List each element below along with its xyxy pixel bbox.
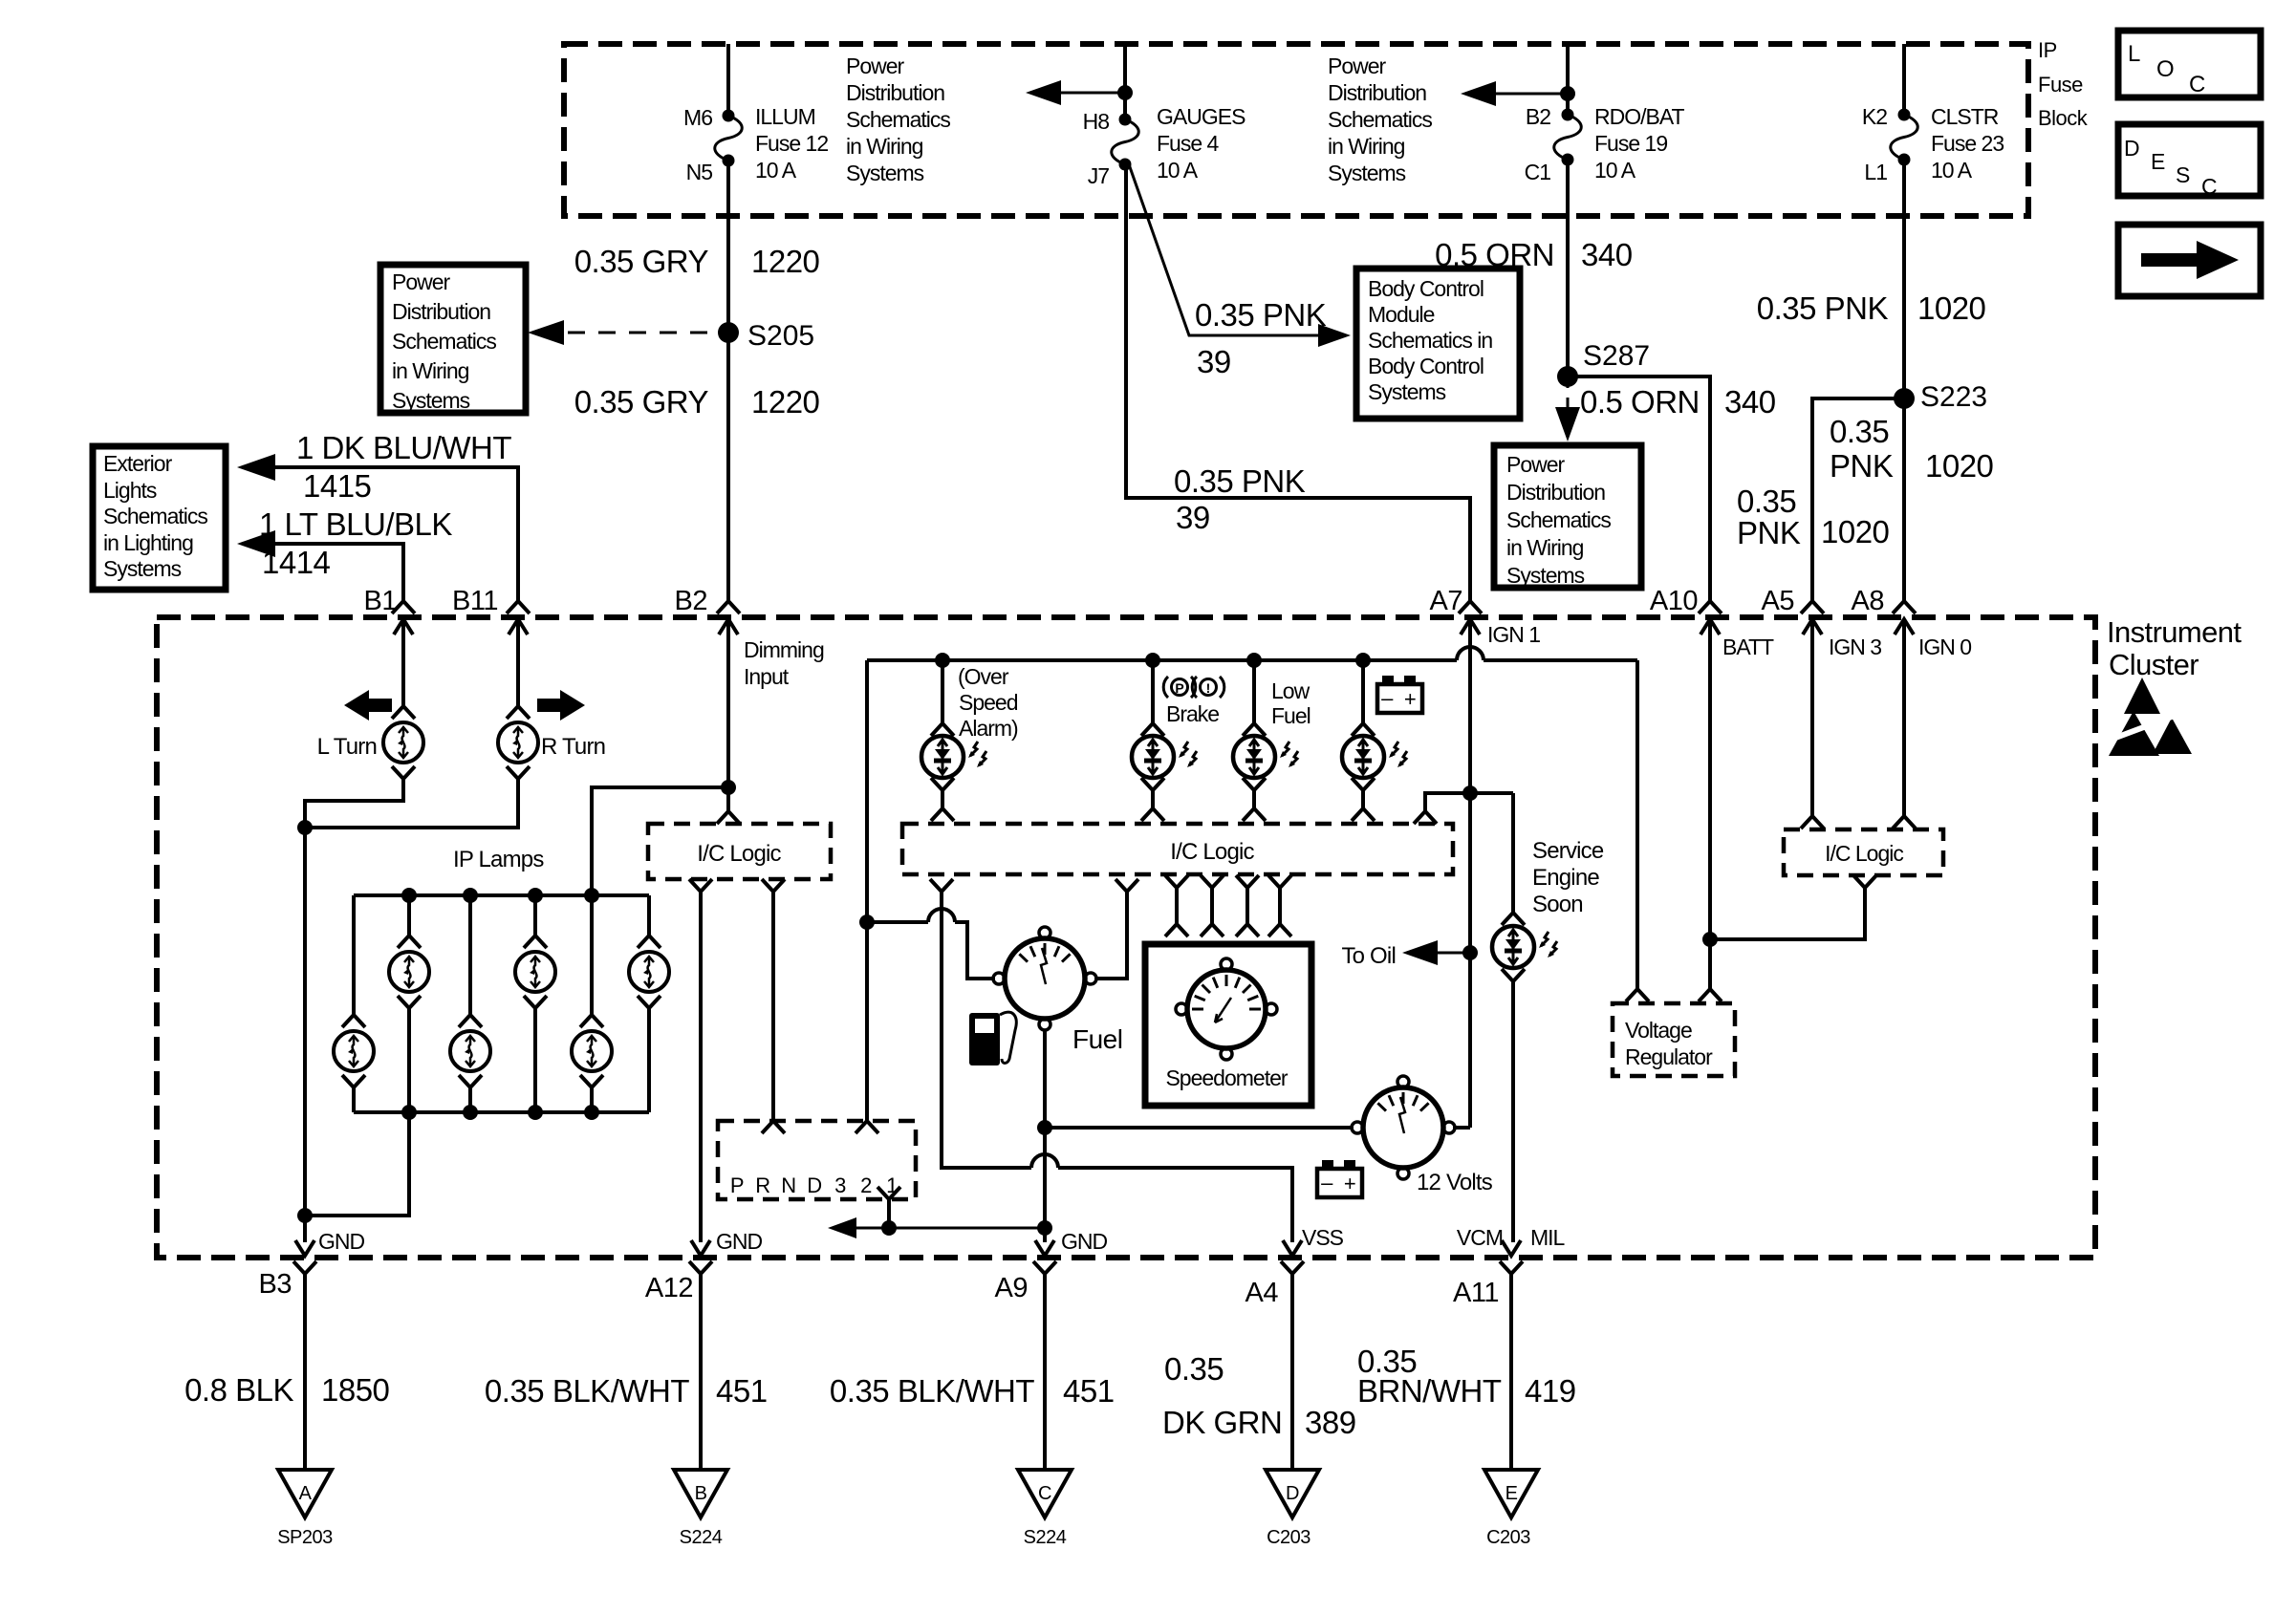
svg-text:in Wiring: in Wiring xyxy=(1506,535,1584,560)
svg-text:0.35 GRY: 0.35 GRY xyxy=(574,384,709,420)
svg-text:VCM: VCM xyxy=(1457,1225,1503,1250)
pin: right I/C bottom xyxy=(1853,875,1876,888)
gauge: Fuel xyxy=(1005,938,1085,1019)
svg-text:K2: K2 xyxy=(1862,104,1887,129)
lamp L Turn xyxy=(392,706,415,719)
node: LED bus junction x=986 xyxy=(935,653,950,668)
svg-text:10 A: 10 A xyxy=(1931,158,1973,183)
node: IP lamp bottom bus junction x=492 xyxy=(463,1105,478,1120)
svg-text:419: 419 xyxy=(1525,1373,1576,1409)
svg-text:0.35: 0.35 xyxy=(1830,414,1889,449)
connector A12 xyxy=(691,1240,710,1256)
svg-text:340: 340 xyxy=(1724,384,1776,420)
box: Power Distribution Schematics in Wiring Systems (upper left) xyxy=(380,265,526,413)
wire: LED column 1 xyxy=(941,660,944,723)
svg-text:S223: S223 xyxy=(1920,381,1987,413)
wire: PRND to select line xyxy=(887,1199,891,1228)
svg-text:GND: GND xyxy=(716,1229,763,1254)
svg-text:Schematics in: Schematics in xyxy=(1368,328,1492,353)
svg-text:IGN 3: IGN 3 xyxy=(1829,635,1881,659)
pin: center I/C bottom left xyxy=(930,879,953,892)
svg-text:0.35 PNK: 0.35 PNK xyxy=(1174,463,1306,499)
svg-text:Fuse 19: Fuse 19 xyxy=(1594,131,1667,156)
lamp IP2 xyxy=(398,936,421,948)
svg-text:Distribution: Distribution xyxy=(1506,480,1605,505)
lamp IP3 xyxy=(459,1015,482,1027)
connector B3 xyxy=(295,1240,314,1256)
connector stub I/C to speedometer x=1305 xyxy=(1236,875,1259,888)
svg-text:A10: A10 xyxy=(1650,586,1698,616)
svg-text:1414: 1414 xyxy=(262,545,331,580)
LED indicator 3 xyxy=(1243,723,1266,736)
svg-text:Service: Service xyxy=(1532,838,1604,864)
LED indicator 2 xyxy=(1141,723,1164,736)
svg-text:Systems: Systems xyxy=(1328,161,1406,185)
node: IP lamp bottom bus junction x=619 xyxy=(584,1105,599,1120)
pin: I/C Logic to PRND xyxy=(762,879,785,892)
svg-text:DK GRN: DK GRN xyxy=(1162,1405,1282,1440)
svg-text:D: D xyxy=(807,1173,821,1197)
box: Power Distribution Schematics in Wiring Systems (lower) xyxy=(1494,445,1641,588)
LED Service Engine Soon xyxy=(1502,913,1525,925)
LED indicator 4 xyxy=(1352,723,1375,736)
wire: I/C to VSS (A4) xyxy=(942,892,1031,1168)
svg-text:Cluster: Cluster xyxy=(2109,648,2199,681)
svg-text:1020: 1020 xyxy=(1925,448,1994,484)
wire: 12V gauge left terminal to A9 wire xyxy=(1045,1126,1354,1130)
svg-text:1 LT BLU/BLK: 1 LT BLU/BLK xyxy=(259,506,452,542)
svg-text:Systems: Systems xyxy=(846,161,924,185)
node S205 xyxy=(718,322,739,343)
node: dimming branch xyxy=(721,780,736,795)
svg-text:1020: 1020 xyxy=(1917,291,1986,326)
wire: IP lamp column 2 xyxy=(407,895,411,936)
svg-text:Power: Power xyxy=(1328,54,1387,78)
svg-text:1415: 1415 xyxy=(303,468,371,504)
connector B1 xyxy=(392,601,415,613)
svg-text:Power: Power xyxy=(1506,452,1566,477)
svg-text:Fuse 4: Fuse 4 xyxy=(1157,131,1220,156)
svg-text:0.5 ORN: 0.5 ORN xyxy=(1580,384,1700,420)
wire: B3 to SP203 xyxy=(303,1274,307,1469)
node: LED bus junction x=1426 xyxy=(1355,653,1371,668)
connector A5 xyxy=(1801,601,1824,613)
Instrument Cluster dashed enclosure xyxy=(157,617,2095,1258)
svg-text:M6: M6 xyxy=(683,105,712,130)
svg-text:GAUGES: GAUGES xyxy=(1157,104,1245,129)
svg-text:10 A: 10 A xyxy=(1594,158,1636,183)
wire: top bus to voltage regulator xyxy=(1635,660,1639,989)
svg-text:S: S xyxy=(2176,162,2190,187)
wire: to Service Engine Soon LED xyxy=(1511,793,1515,913)
svg-text:IGN 1: IGN 1 xyxy=(1487,622,1540,647)
svg-text:ILLUM: ILLUM xyxy=(755,104,815,129)
wire: R Turn output 1 DK BLU/WHT 1415 xyxy=(250,467,518,603)
wire: IP lamps bottom bus xyxy=(354,1110,649,1114)
svg-text:S205: S205 xyxy=(747,320,814,352)
svg-text:389: 389 xyxy=(1305,1405,1356,1440)
svg-text:A7: A7 xyxy=(1430,586,1462,616)
svg-text:10 A: 10 A xyxy=(755,158,797,183)
wire: right I/C to BATT wire xyxy=(1709,888,1865,939)
connector A (SP203) xyxy=(278,1470,332,1517)
svg-text:39: 39 xyxy=(1197,344,1231,379)
svg-text:BATT: BATT xyxy=(1722,635,1774,659)
svg-text:3: 3 xyxy=(834,1173,846,1197)
pin: PRND bottom xyxy=(877,1187,900,1199)
svg-text:Speedometer: Speedometer xyxy=(1165,1065,1288,1090)
svg-text:1220: 1220 xyxy=(751,244,820,279)
lamp IP1 xyxy=(342,1015,365,1027)
svg-text:0.35 GRY: 0.35 GRY xyxy=(574,244,709,279)
wire: I/C Logic to PRND display xyxy=(771,892,775,1120)
svg-text:N: N xyxy=(781,1173,795,1197)
LED indicator 1 xyxy=(931,723,954,736)
svg-text:451: 451 xyxy=(1063,1373,1115,1409)
svg-text:S287: S287 xyxy=(1583,340,1650,372)
node: IP lamp bus junction x=428 xyxy=(401,888,417,903)
svg-text:L: L xyxy=(2128,41,2140,67)
svg-text:in Lighting: in Lighting xyxy=(103,530,193,555)
svg-text:Schematics: Schematics xyxy=(1506,507,1611,532)
arrow to Power Distribution (left) xyxy=(1032,92,1125,95)
fuse F23 CLSTR xyxy=(1898,109,1911,121)
svg-text:Module: Module xyxy=(1368,302,1435,327)
wire: IP lamp column 4 xyxy=(533,895,537,936)
svg-text:Fuel: Fuel xyxy=(1271,703,1310,728)
connector stub I/C to speedometer x=1339 xyxy=(1268,875,1291,888)
wire: dimming branch to IP lamps xyxy=(592,787,728,895)
svg-text:Lights: Lights xyxy=(103,478,157,503)
svg-text:C203: C203 xyxy=(1267,1527,1310,1548)
svg-text:2: 2 xyxy=(860,1173,872,1197)
I/C Logic box (left) xyxy=(717,811,740,824)
svg-text:0.8 BLK: 0.8 BLK xyxy=(184,1372,293,1408)
svg-text:P: P xyxy=(730,1173,744,1197)
svg-text:VSS: VSS xyxy=(1302,1225,1344,1250)
svg-text:IP Lamps: IP Lamps xyxy=(453,847,544,872)
lamp R Turn xyxy=(507,706,530,719)
svg-text:Systems: Systems xyxy=(1506,563,1585,588)
svg-text:I/C Logic: I/C Logic xyxy=(697,841,781,867)
svg-text:Distribution: Distribution xyxy=(846,80,944,105)
ESD sensitive device symbol xyxy=(2124,678,2160,714)
svg-text:S224: S224 xyxy=(1024,1527,1067,1548)
svg-text:D: D xyxy=(1286,1483,1299,1504)
svg-text:Voltage: Voltage xyxy=(1625,1018,1692,1043)
pin: center I/C top right from IGN1 xyxy=(1414,811,1437,824)
wire: IP lamp column 1 xyxy=(352,895,356,1015)
fuse F4 GAUGES xyxy=(1119,114,1132,126)
wire: I/C Logic to A12 GND xyxy=(699,892,703,1242)
svg-text:in Wiring: in Wiring xyxy=(846,134,923,159)
svg-text:A11: A11 xyxy=(1453,1278,1499,1308)
pin: center I/C bottom (fuel gauge right) xyxy=(1116,879,1138,892)
svg-text:10 A: 10 A xyxy=(1157,158,1199,183)
svg-text:H8: H8 xyxy=(1083,109,1110,134)
wire: IP lamps top bus xyxy=(354,893,649,897)
svg-text:in Wiring: in Wiring xyxy=(392,358,469,383)
node: To Oil junction xyxy=(1462,945,1478,960)
svg-text:B2: B2 xyxy=(1526,104,1550,129)
node: IP lamp bottom bus junction x=560 xyxy=(528,1105,543,1120)
svg-text:B3: B3 xyxy=(259,1269,292,1300)
svg-text:J7: J7 xyxy=(1088,163,1110,188)
svg-text:0.35 BLK/WHT: 0.35 BLK/WHT xyxy=(485,1373,689,1409)
connector A8 xyxy=(1893,601,1916,613)
wire: LED column 4 xyxy=(1361,660,1365,723)
wire to R Turn lamp xyxy=(516,635,520,706)
svg-text:SP203: SP203 xyxy=(277,1527,333,1548)
svg-text:E: E xyxy=(1505,1483,1518,1504)
pin: I/C Logic left bottom (GND) xyxy=(689,879,712,892)
svg-text:B: B xyxy=(695,1483,707,1504)
wire: RDO/BAT fuse feed xyxy=(1566,44,1570,115)
node: turn lamp ground junction xyxy=(297,820,313,835)
svg-text:Input: Input xyxy=(744,664,790,689)
svg-text:O: O xyxy=(2156,56,2174,82)
wire: S287 branch to A10 xyxy=(1568,377,1710,603)
node: BATT/I-C junction xyxy=(1702,932,1718,947)
svg-text:Schematics: Schematics xyxy=(392,329,496,354)
svg-text:B11: B11 xyxy=(452,586,498,616)
svg-text:12 Volts: 12 Volts xyxy=(1417,1170,1493,1195)
wire: L Turn output 1 LT BLU/BLK 1414 xyxy=(250,544,403,603)
svg-text:C203: C203 xyxy=(1486,1527,1530,1548)
wire: IGN 1 from A7 xyxy=(1468,635,1472,1128)
dashed arrow from S205 to box xyxy=(537,332,719,334)
svg-text:Systems: Systems xyxy=(103,556,182,581)
wire: A4 to C203 xyxy=(1290,1274,1294,1469)
svg-text:39: 39 xyxy=(1176,500,1210,535)
wire: CLSTR fuse feed xyxy=(1902,44,1906,115)
wire: RDO/BAT output 0.5 ORN 340 xyxy=(1566,160,1570,377)
wire: SES LED to MIL A11 xyxy=(1511,981,1515,1242)
connector B (S224) xyxy=(674,1470,727,1517)
gauge: 12 Volts xyxy=(1363,1087,1443,1168)
IP Fuse Block dashed enclosure xyxy=(564,44,2028,216)
node S287 xyxy=(1557,366,1578,387)
wire: A11 to C203 xyxy=(1509,1274,1513,1469)
svg-text:Low: Low xyxy=(1271,678,1310,703)
wire: IP lamps return to ground xyxy=(305,1112,409,1216)
svg-text:1 DK BLU/WHT: 1 DK BLU/WHT xyxy=(296,430,511,465)
svg-text:IGN 0: IGN 0 xyxy=(1918,635,1971,659)
svg-text:RDO/BAT: RDO/BAT xyxy=(1594,104,1684,129)
node: LED bus junction x=1312 xyxy=(1246,653,1262,668)
Speedometer box xyxy=(1145,944,1311,1106)
svg-text:IP: IP xyxy=(2038,38,2057,62)
svg-text:E: E xyxy=(2151,149,2165,174)
svg-text:Fuse 23: Fuse 23 xyxy=(1931,131,2004,156)
svg-text:Exterior: Exterior xyxy=(103,451,173,476)
connector A4 xyxy=(1283,1240,1302,1256)
wire: 12V gauge right terminal to IGN1 xyxy=(1453,1126,1470,1130)
svg-text:L1: L1 xyxy=(1864,160,1887,184)
node: ground junction at B3 wire xyxy=(297,1208,313,1223)
svg-text:BRN/WHT: BRN/WHT xyxy=(1357,1373,1502,1409)
wire: ground bus to B3 xyxy=(303,828,307,1242)
svg-text:GND: GND xyxy=(318,1229,365,1254)
LOC box xyxy=(2118,31,2261,97)
connector B11 xyxy=(507,601,530,613)
svg-text:Power: Power xyxy=(846,54,905,78)
svg-text:0.35: 0.35 xyxy=(1737,484,1796,519)
svg-text:Body Control: Body Control xyxy=(1368,276,1484,301)
wire: IP lamp column 3 xyxy=(468,895,472,1015)
svg-text:R Turn: R Turn xyxy=(541,734,605,760)
wire: A12 to S224 xyxy=(699,1274,703,1469)
svg-text:Block: Block xyxy=(2038,106,2089,130)
svg-text:B1: B1 xyxy=(364,586,397,616)
connector A9 xyxy=(1035,1240,1054,1256)
svg-text:A12: A12 xyxy=(645,1273,693,1303)
connector D (C203) xyxy=(1266,1470,1319,1517)
svg-text:C: C xyxy=(1038,1483,1051,1504)
wire: GAUGES fuse feed xyxy=(1123,44,1127,119)
svg-text:A: A xyxy=(299,1483,313,1504)
node: fuel gauge feed junction xyxy=(859,915,875,930)
wire: ILLUM output 0.35 GRY 1220 xyxy=(726,161,730,603)
wire from L Turn lamp xyxy=(305,779,403,828)
wire: GAUGES output down and right to A7 xyxy=(1126,164,1470,603)
svg-text:+: + xyxy=(1404,687,1416,711)
svg-text:C: C xyxy=(2189,72,2205,97)
svg-text:Soon: Soon xyxy=(1532,892,1583,917)
svg-text:I/C Logic: I/C Logic xyxy=(1825,841,1903,866)
svg-text:0.35 PNK: 0.35 PNK xyxy=(1757,291,1889,326)
svg-text:Schematics: Schematics xyxy=(103,504,207,528)
svg-text:C: C xyxy=(2201,174,2217,199)
svg-text:CLSTR: CLSTR xyxy=(1931,104,1999,129)
svg-text:–: – xyxy=(1381,686,1394,710)
node: IP lamp bus junction x=560 xyxy=(528,888,543,903)
node: arrow junction on GAUGES feed xyxy=(1117,85,1133,100)
PRND321 display box xyxy=(762,1121,785,1133)
I/C Logic box (center) xyxy=(902,824,1453,874)
svg-text:Instrument: Instrument xyxy=(2107,615,2242,649)
connector A7 xyxy=(1459,601,1482,613)
svg-text:PNK: PNK xyxy=(1737,515,1801,550)
brake warning icon xyxy=(1172,679,1188,696)
svg-text:P: P xyxy=(1175,680,1183,696)
connector A10 xyxy=(1699,601,1722,613)
connector A11 xyxy=(1502,1240,1521,1256)
wire to L Turn lamp xyxy=(401,635,405,706)
svg-text:GND: GND xyxy=(1061,1229,1108,1254)
svg-text:PNK: PNK xyxy=(1830,448,1894,484)
node: LED bus junction x=1206 xyxy=(1145,653,1160,668)
svg-text:A4: A4 xyxy=(1245,1278,1279,1308)
wire: indicator LED top bus xyxy=(867,658,1457,662)
wire: J7 diagonal to BCM arrow xyxy=(1129,164,1336,335)
wire: I/C to fuel gauge right terminal xyxy=(1094,892,1127,979)
wire: LED column 3 xyxy=(1252,660,1256,723)
svg-text:MIL: MIL xyxy=(1530,1225,1566,1250)
wire: feed to fuel gauge left terminal xyxy=(867,920,928,924)
svg-text:Speed: Speed xyxy=(959,690,1018,715)
node: IP lamp bottom bus junction x=428 xyxy=(401,1105,417,1120)
svg-text:Regulator: Regulator xyxy=(1625,1044,1713,1069)
svg-text:Engine: Engine xyxy=(1532,865,1599,891)
svg-text:Body Control: Body Control xyxy=(1368,354,1484,378)
wire: A9 to S224 xyxy=(1043,1274,1047,1469)
connector C (S224) xyxy=(1018,1470,1072,1517)
wire: fuel gauge bottom to GND A9 xyxy=(1043,1030,1047,1242)
connector B2 xyxy=(717,601,740,613)
lamp IP4 xyxy=(524,936,547,948)
lamp IP5 xyxy=(580,1015,603,1027)
node S223 xyxy=(1894,388,1915,409)
wire: S223 branch to A5 xyxy=(1812,398,1904,603)
svg-text:Schematics: Schematics xyxy=(1328,107,1432,132)
wire from R Turn lamp xyxy=(305,779,518,828)
battery icon (charge indicator) xyxy=(1382,676,1394,685)
svg-text:!: ! xyxy=(1206,680,1211,696)
svg-text:C1: C1 xyxy=(1525,160,1551,184)
svg-text:+: + xyxy=(1344,1172,1355,1195)
wire: gauge ground / select line with left arrow xyxy=(851,1227,1045,1230)
svg-text:A5: A5 xyxy=(1762,586,1794,616)
svg-text:1850: 1850 xyxy=(321,1372,390,1408)
wire: IGN 3 from A5 xyxy=(1810,635,1814,816)
svg-text:Distribution: Distribution xyxy=(392,299,490,324)
svg-text:Dimming: Dimming xyxy=(744,637,824,662)
svg-text:0.35 BLK/WHT: 0.35 BLK/WHT xyxy=(830,1373,1034,1409)
battery icon (12V) xyxy=(1322,1160,1333,1170)
svg-text:Alarm): Alarm) xyxy=(959,716,1018,741)
wire: LED column 2 xyxy=(1151,660,1155,723)
connector E (C203) xyxy=(1484,1470,1538,1517)
svg-text:451: 451 xyxy=(716,1373,768,1409)
svg-text:0.35 PNK: 0.35 PNK xyxy=(1195,297,1327,333)
svg-text:S224: S224 xyxy=(680,1527,723,1548)
node: IP lamp bus junction x=492 xyxy=(463,888,478,903)
svg-text:Systems: Systems xyxy=(392,388,470,413)
svg-text:0.5 ORN: 0.5 ORN xyxy=(1435,237,1554,272)
svg-text:(Over: (Over xyxy=(958,664,1009,689)
arrow to Power Distribution (right) xyxy=(1467,93,1568,96)
svg-text:340: 340 xyxy=(1581,237,1633,272)
arrow To Oil xyxy=(1409,952,1470,955)
fuel pump icon xyxy=(969,1013,1000,1065)
wire: LED bus down to fuel gauge / PRND xyxy=(865,660,869,1120)
svg-text:R: R xyxy=(755,1173,769,1197)
DESC box xyxy=(2118,124,2261,196)
wire: IGN1 branch to I/C logic xyxy=(1425,793,1513,811)
svg-text:B2: B2 xyxy=(675,586,707,616)
lamp IP6 xyxy=(638,936,661,948)
forward arrow box xyxy=(2118,225,2261,296)
left turn arrow icon xyxy=(344,690,392,721)
node: arrow junction on RDO/BAT feed xyxy=(1560,86,1575,101)
svg-text:A9: A9 xyxy=(995,1273,1028,1303)
box: Body Control Module Schematics in Body Control Systems xyxy=(1356,269,1520,419)
node: 12V gauge branch xyxy=(1037,1120,1052,1135)
wire: IGN 0 from A8 xyxy=(1902,635,1906,816)
wire: IP lamp column 5 xyxy=(590,895,594,1015)
svg-text:1020: 1020 xyxy=(1821,514,1890,549)
box: Exterior Lights Schematics in Lighting Systems xyxy=(93,446,226,590)
svg-text:–: – xyxy=(1321,1171,1333,1194)
I/C Logic box (right) xyxy=(1784,829,1943,875)
wire: IP lamp column 6 xyxy=(647,895,651,936)
svg-text:0.35: 0.35 xyxy=(1164,1351,1224,1387)
svg-text:A8: A8 xyxy=(1852,586,1884,616)
connector stub I/C to speedometer x=1268 xyxy=(1201,875,1224,888)
fuse F19 RDO/BAT xyxy=(1562,109,1574,121)
svg-text:D: D xyxy=(2124,136,2139,161)
